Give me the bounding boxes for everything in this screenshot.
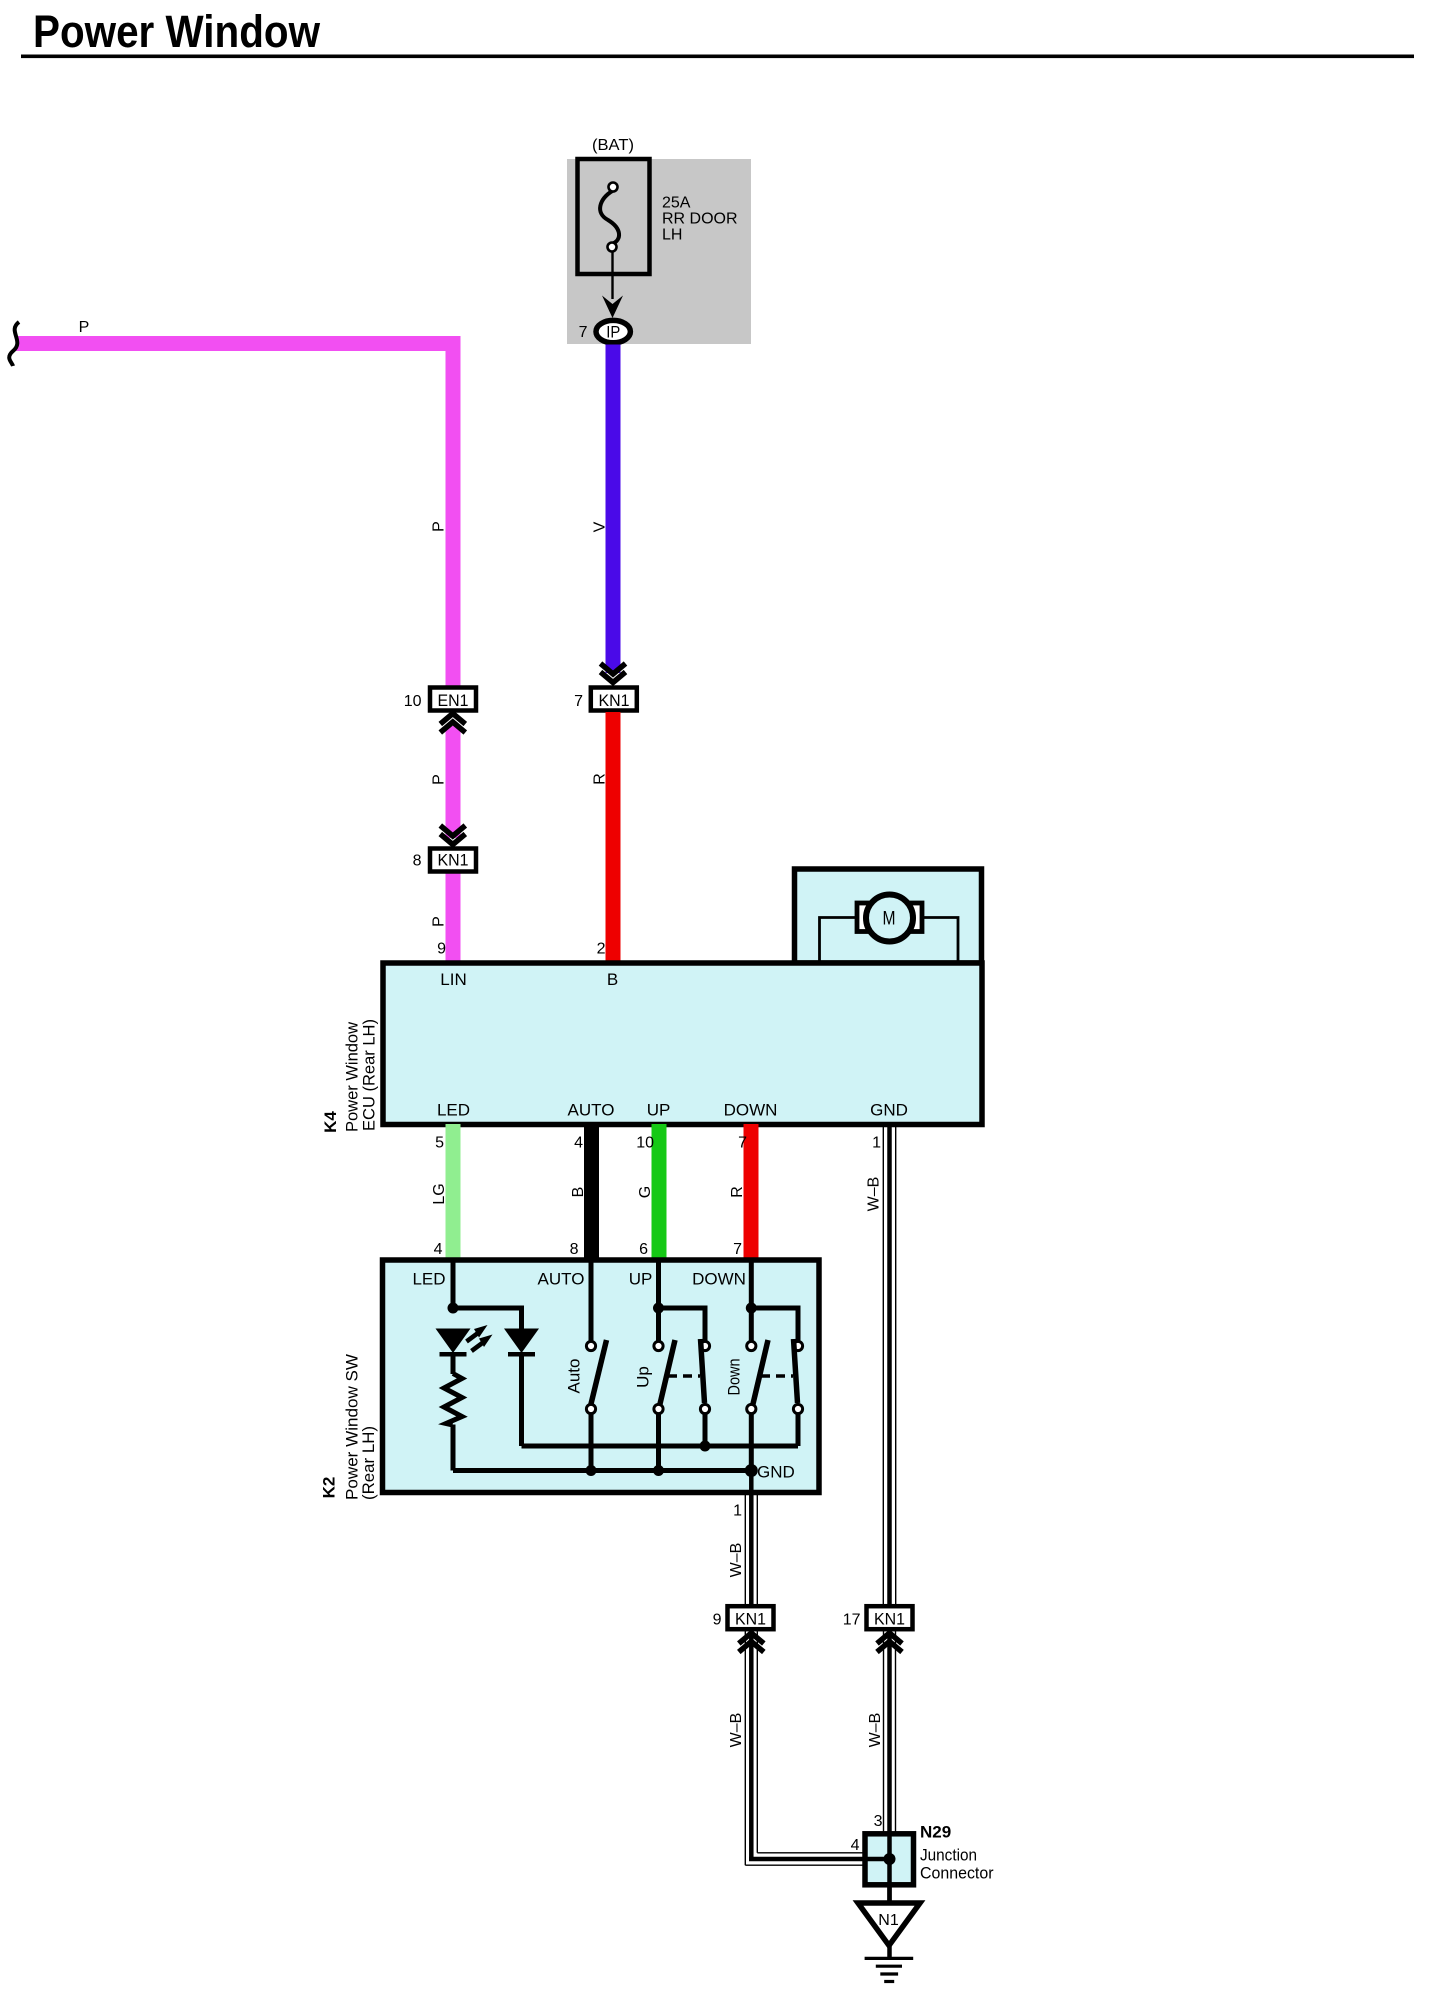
wire W-B SW GND pin 1 to KN1 pin 9 [745,1471,757,1606]
svg-text:9: 9 [713,1612,722,1629]
node UP junction [653,1303,664,1314]
wire R (red) KN1 to ECU pin 2 [606,712,621,963]
switch Auto [586,1340,606,1414]
svg-text:W–B: W–B [728,1713,745,1748]
svg-text:GND: GND [757,1463,795,1482]
motor wires [820,918,858,962]
switch box K2 Power Window SW (Rear LH) [383,1260,820,1493]
svg-text:2: 2 [597,941,606,958]
wire R (red) ECU pin 7 to SW pin 7 [744,1124,759,1260]
node GND [745,1464,758,1477]
switch Down pole 1 [747,1340,768,1414]
junction connector N29 [865,1834,914,1885]
resistor R [444,1374,462,1426]
arrowheads out of EN1 [440,714,465,733]
LED branch wire [451,1260,456,1308]
svg-text:P: P [431,916,448,927]
svg-text:B: B [570,1187,587,1198]
ground triangle N1 [858,1903,920,1946]
svg-text:25A: 25A [662,195,691,212]
wire B (black) ECU pin 4 to SW pin 8 [584,1124,599,1260]
svg-text:KN1: KN1 [735,1610,766,1629]
title underline [21,55,1414,59]
svg-text:B: B [607,970,618,989]
node DOWN junction [746,1303,757,1314]
ground bars [865,1958,914,1981]
svg-text:Power Window: Power Window [33,6,321,57]
svg-text:4: 4 [434,1241,443,1258]
wire fuse to IP [611,251,613,299]
svg-text:10: 10 [404,693,422,710]
mechanical link dashed [668,1374,700,1378]
ECU box K4 Power Window ECU (Rear LH) [383,963,982,1125]
svg-text:7: 7 [574,693,583,710]
svg-text:17: 17 [843,1612,861,1629]
wire W-B KN1 pin 17 to junction connector pin 3 [884,1631,896,1905]
svg-text:LG: LG [431,1183,448,1204]
svg-text:EN1: EN1 [438,691,469,710]
battery feed gray block [567,159,751,344]
wire P EN1 to KN1 pin 8 segment [446,726,461,838]
svg-text:KN1: KN1 [874,1610,905,1629]
fuse value label 25A RR DOOR LH [662,195,738,244]
svg-text:G: G [637,1186,654,1198]
svg-text:K2: K2 [320,1477,339,1499]
connector KN1 pin 9 [713,1606,774,1629]
svg-text:M: M [883,909,896,930]
svg-text:N1: N1 [878,1912,899,1929]
svg-text:Auto: Auto [565,1359,584,1394]
svg-text:R: R [592,773,609,785]
bottom ground net wire [453,1468,751,1473]
wire P (pink) from page break to EN1 [16,344,453,688]
arrowheads into KN1 pin 8 [440,826,465,845]
wire W-B KN1 pin 9 to junction connector pin 4 [745,1631,890,1865]
node junction dot [884,1853,896,1865]
DOWN switch wires [749,1260,754,1308]
connector KN1 pin 8 [413,849,476,872]
connector KN1 pin 7 [574,688,637,711]
svg-text:DOWN: DOWN [692,1270,746,1289]
node auto bottom [586,1465,597,1476]
connector EN1 pin 10 [404,688,476,711]
svg-text:KN1: KN1 [438,851,469,870]
motor box of ECU [795,869,982,963]
wire D1 to resistor [451,1357,456,1375]
UP switch wires [656,1260,661,1308]
wire W-B ECU GND pin 1 to KN1 pin 17 [883,1124,895,1606]
svg-text:5: 5 [435,1135,444,1152]
node LED junction [448,1303,459,1314]
svg-text:GND: GND [870,1101,908,1120]
svg-text:(Rear LH): (Rear LH) [359,1426,378,1500]
svg-text:Connector: Connector [920,1864,994,1883]
LED emission arrows [467,1325,493,1351]
diode D2 [504,1329,539,1357]
svg-text:R: R [729,1186,746,1198]
wire G (green) ECU pin 10 to SW pin 6 [652,1124,667,1260]
svg-text:(BAT): (BAT) [592,137,634,154]
AUTO switch wire [589,1260,594,1342]
svg-text:4: 4 [574,1135,583,1152]
svg-text:7: 7 [733,1241,742,1258]
svg-text:P: P [431,521,448,532]
svg-text:IP: IP [606,323,620,342]
wire resistor to bottom net [451,1425,456,1471]
motor M1 circle [866,895,913,942]
svg-text:K4: K4 [321,1111,340,1133]
fuse F 25A RR DOOR LH [578,159,650,274]
svg-text:AUTO: AUTO [538,1270,585,1289]
arrowheads out of KN1 pin 17 [877,1633,902,1652]
LED D1 [436,1329,471,1357]
svg-text:P: P [79,319,90,336]
arrowheads into KN1 pin 7 [601,664,626,683]
arrowheads out of KN1 pin 9 [739,1633,764,1652]
svg-text:10: 10 [636,1135,654,1152]
svg-text:Up: Up [634,1366,653,1388]
svg-text:DOWN: DOWN [724,1101,778,1120]
svg-text:ECU (Rear LH): ECU (Rear LH) [360,1019,379,1131]
mechanical link dashed [761,1374,793,1378]
svg-text:4: 4 [851,1837,860,1854]
svg-text:Down: Down [725,1359,744,1396]
connector oval IP pin 7 [579,320,631,342]
svg-text:7: 7 [738,1135,747,1152]
svg-text:7: 7 [579,324,588,341]
wire through junction connector [887,1834,892,1905]
svg-text:N29: N29 [920,1823,951,1842]
svg-text:AUTO: AUTO [568,1101,615,1120]
svg-text:8: 8 [413,853,422,870]
svg-text:V: V [591,521,608,532]
svg-text:LH: LH [662,227,682,244]
ground stem [887,1944,892,1958]
svg-text:8: 8 [570,1241,579,1258]
wire D2 to inner net [519,1357,524,1447]
node inner net junction [700,1441,711,1452]
svg-text:LED: LED [437,1101,470,1120]
inner net wire (D2 / Up2 / Down2) [522,1444,799,1449]
svg-text:LED: LED [412,1270,445,1289]
svg-text:UP: UP [629,1270,653,1289]
switch Up pole 2 [700,1339,709,1414]
svg-text:RR DOOR: RR DOOR [662,211,738,228]
wire LG ECU pin 5 to SW pin 4 [446,1124,461,1260]
svg-text:6: 6 [639,1241,648,1258]
svg-text:KN1: KN1 [599,691,630,710]
page break squiggle [9,322,19,366]
svg-text:1: 1 [872,1135,881,1152]
svg-text:P: P [431,774,448,785]
svg-text:9: 9 [437,941,446,958]
svg-text:UP: UP [647,1101,671,1120]
wire P KN1 pin 8 to ECU segment [446,873,461,963]
arrowhead into IP [602,296,623,319]
wire V (violet) IP to KN1 [606,345,621,674]
svg-text:3: 3 [874,1813,883,1830]
wire to second diode [453,1308,522,1330]
svg-text:W–B: W–B [867,1713,884,1748]
svg-text:1: 1 [733,1503,742,1520]
svg-text:W–B: W–B [866,1177,883,1212]
connector KN1 pin 17 [843,1606,913,1629]
switch Down pole 2 [793,1339,802,1414]
svg-text:W–B: W–B [728,1543,745,1578]
switch Up pole 1 [654,1340,675,1414]
svg-text:Junction: Junction [920,1846,977,1865]
motor brush brackets [857,903,877,932]
svg-text:LIN: LIN [440,970,466,989]
node up bottom [653,1465,664,1476]
